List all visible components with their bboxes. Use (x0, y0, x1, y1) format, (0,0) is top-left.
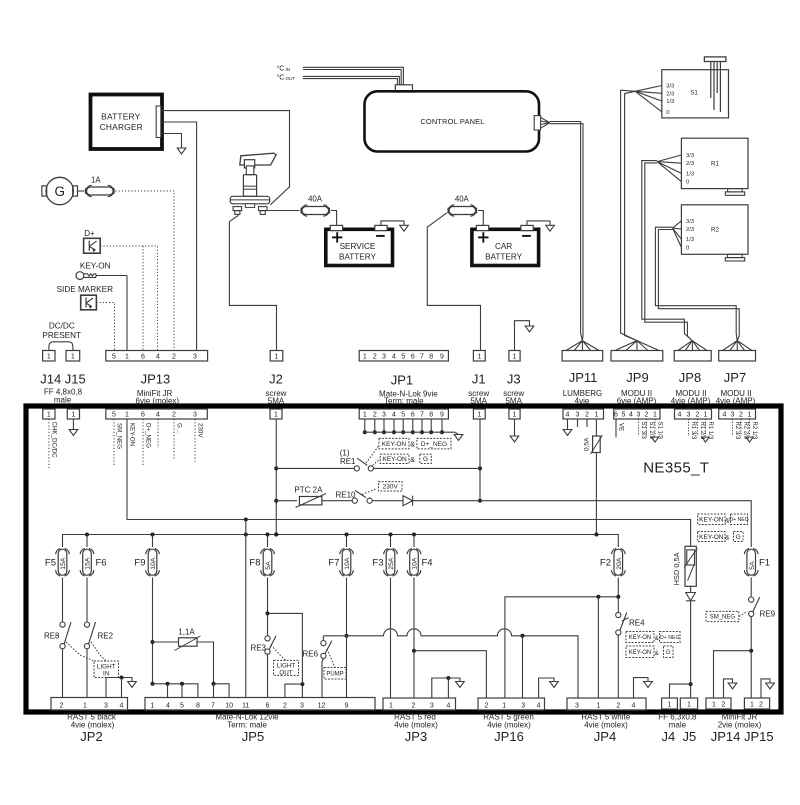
svg-text:1: 1 (712, 701, 716, 708)
svg-text:1: 1 (47, 411, 51, 418)
svg-text:1: 1 (275, 353, 279, 360)
svg-text:1/3: 1/3 (686, 237, 694, 243)
svg-text:2/3: 2/3 (686, 227, 694, 233)
svg-text:6: 6 (141, 353, 145, 360)
svg-text:4: 4 (566, 411, 570, 418)
svg-text:4: 4 (156, 353, 160, 360)
svg-text:BATTERY: BATTERY (101, 112, 140, 122)
svg-text:JP3: JP3 (405, 729, 427, 744)
svg-text:8: 8 (196, 702, 200, 709)
svg-text:1: 1 (477, 411, 481, 418)
svg-text:RE4: RE4 (629, 619, 645, 628)
svg-text:J1: J1 (472, 372, 486, 387)
svg-text:5: 5 (112, 411, 116, 418)
svg-text:5A: 5A (265, 561, 272, 570)
svg-text:3: 3 (575, 702, 579, 709)
svg-text:F6: F6 (96, 558, 107, 569)
svg-text:1: 1 (151, 702, 155, 709)
svg-text:VE: VE (618, 423, 625, 431)
svg-text:BATTERY: BATTERY (339, 253, 377, 262)
svg-text:IN: IN (103, 670, 110, 677)
svg-text:5: 5 (622, 411, 626, 418)
svg-text:2/3: 2/3 (666, 91, 674, 97)
svg-text:F3: F3 (372, 558, 383, 569)
svg-text:2: 2 (616, 702, 620, 709)
svg-text:10A: 10A (412, 557, 419, 570)
svg-text:OUT: OUT (286, 76, 296, 81)
svg-text:5A: 5A (749, 561, 756, 570)
svg-text:J3: J3 (507, 372, 521, 387)
svg-text:3: 3 (300, 702, 304, 709)
svg-text:7: 7 (420, 353, 424, 360)
svg-text:SM_NEG: SM_NEG (710, 615, 736, 621)
svg-text:7: 7 (211, 702, 215, 709)
svg-text:6: 6 (411, 353, 415, 360)
svg-text:R1 3/3: R1 3/3 (690, 422, 696, 440)
svg-text:JP2: JP2 (80, 729, 102, 744)
svg-text:2: 2 (585, 411, 589, 418)
svg-text:3: 3 (637, 411, 641, 418)
svg-text:3: 3 (731, 411, 735, 418)
svg-text:0: 0 (686, 245, 689, 251)
svg-text:G: G (423, 456, 428, 463)
svg-text:F4: F4 (422, 558, 433, 569)
svg-text:JP5: JP5 (242, 729, 264, 744)
svg-text:1: 1 (83, 702, 87, 709)
svg-text:1: 1 (125, 411, 129, 418)
svg-text:0,5A: 0,5A (584, 437, 591, 451)
svg-text:1: 1 (71, 353, 75, 360)
svg-text:KEY-ON: KEY-ON (699, 517, 724, 524)
svg-text:4: 4 (166, 702, 170, 709)
svg-text:8: 8 (429, 353, 433, 360)
svg-text:RE8: RE8 (44, 632, 60, 641)
svg-text:230V: 230V (197, 423, 204, 438)
svg-text:F2: F2 (600, 558, 611, 569)
svg-text:1: 1 (668, 701, 672, 708)
svg-text:1: 1 (750, 701, 754, 708)
svg-text:°C: °C (276, 73, 284, 82)
svg-text:°C: °C (276, 63, 284, 72)
svg-text:2: 2 (373, 411, 377, 418)
svg-text:LIGHT: LIGHT (277, 663, 296, 670)
svg-text:4: 4 (629, 411, 633, 418)
svg-text:2: 2 (373, 353, 377, 360)
svg-text:D+_NEG: D+_NEG (145, 423, 152, 448)
svg-text:4: 4 (678, 411, 682, 418)
svg-text:JP16: JP16 (494, 729, 524, 744)
svg-text:1: 1 (502, 702, 506, 709)
svg-text:HSD 0,5A: HSD 0,5A (672, 552, 681, 585)
svg-text:4: 4 (392, 353, 396, 360)
svg-text:2/3: 2/3 (686, 161, 694, 167)
svg-text:KEY-ON: KEY-ON (80, 262, 111, 271)
svg-text:1: 1 (596, 702, 600, 709)
svg-text:3: 3 (104, 702, 108, 709)
svg-text:5: 5 (401, 353, 405, 360)
svg-text:JP1: JP1 (391, 373, 413, 388)
svg-text:1: 1 (513, 411, 517, 418)
svg-text:3: 3 (430, 702, 434, 709)
svg-text:JP9: JP9 (626, 370, 648, 385)
svg-text:4: 4 (446, 702, 450, 709)
svg-text:KEY-ON: KEY-ON (699, 534, 724, 541)
svg-text:KEY-ON: KEY-ON (382, 441, 407, 448)
svg-text:0: 0 (686, 180, 689, 186)
svg-text:1/3: 1/3 (686, 171, 694, 177)
svg-text:2: 2 (484, 702, 488, 709)
svg-text:3: 3 (521, 702, 525, 709)
svg-text:RE9: RE9 (760, 610, 776, 619)
svg-text:11: 11 (242, 702, 249, 709)
svg-text:G: G (736, 534, 741, 541)
svg-text:G...: G... (176, 423, 183, 433)
svg-text:2: 2 (739, 411, 743, 418)
svg-text:J2: J2 (269, 372, 283, 387)
svg-text:CHK_DC/DC: CHK_DC/DC (51, 422, 58, 459)
svg-text:12: 12 (318, 702, 326, 709)
svg-text:1: 1 (687, 701, 691, 708)
svg-text:2: 2 (172, 353, 176, 360)
svg-text:3: 3 (382, 411, 386, 418)
svg-text:1: 1 (363, 353, 367, 360)
svg-text:OUT: OUT (279, 670, 292, 677)
svg-text:2: 2 (696, 411, 700, 418)
svg-text:IN: IN (286, 67, 291, 72)
svg-text:RE6: RE6 (303, 650, 319, 659)
svg-text:3: 3 (193, 411, 197, 418)
svg-text:10A: 10A (150, 557, 157, 570)
svg-text:6: 6 (614, 411, 618, 418)
svg-text:25A: 25A (388, 557, 395, 570)
svg-text:CONTROL PANEL: CONTROL PANEL (420, 117, 484, 126)
svg-text:KEY-ON: KEY-ON (629, 650, 651, 656)
svg-text:0: 0 (666, 110, 669, 116)
svg-text:RE2: RE2 (98, 632, 114, 641)
svg-text:6: 6 (411, 411, 415, 418)
svg-text:F7: F7 (328, 558, 339, 569)
svg-text:3: 3 (576, 411, 580, 418)
svg-text:8: 8 (429, 411, 433, 418)
svg-text:CAR: CAR (495, 242, 512, 251)
svg-text:&: & (655, 651, 659, 657)
svg-text:RE3: RE3 (250, 644, 266, 653)
svg-text:F8: F8 (249, 558, 260, 569)
svg-text:DC/DC: DC/DC (49, 322, 75, 331)
svg-text:2: 2 (412, 702, 416, 709)
svg-text:JP8: JP8 (679, 370, 701, 385)
svg-text:1: 1 (125, 353, 129, 360)
svg-text:1A: 1A (91, 175, 101, 184)
svg-text:10: 10 (225, 702, 233, 709)
svg-text:1: 1 (653, 411, 657, 418)
svg-text:LIGHT: LIGHT (97, 663, 116, 670)
svg-text:&: & (410, 457, 415, 464)
svg-text:2: 2 (645, 411, 649, 418)
svg-text:SERVICE: SERVICE (340, 242, 376, 251)
svg-text:40A: 40A (455, 195, 470, 204)
svg-text:9: 9 (440, 353, 444, 360)
svg-text:S1: S1 (690, 90, 698, 97)
svg-text:1: 1 (47, 353, 51, 360)
svg-text:1: 1 (513, 353, 517, 360)
svg-text:PTC 2A: PTC 2A (294, 485, 323, 494)
svg-text:D+_NEG: D+_NEG (421, 441, 447, 448)
svg-text:1: 1 (389, 702, 393, 709)
svg-text:JP4: JP4 (594, 729, 616, 744)
svg-text:F1: F1 (759, 558, 770, 569)
svg-text:JP13: JP13 (141, 372, 171, 387)
svg-text:40A: 40A (308, 195, 323, 204)
svg-text:6: 6 (141, 411, 145, 418)
svg-text:D+ NEG: D+ NEG (660, 635, 679, 641)
svg-text:1,1A: 1,1A (178, 628, 195, 637)
svg-text:9: 9 (344, 702, 348, 709)
svg-text:S1 3/3: S1 3/3 (640, 422, 646, 440)
svg-text:4: 4 (537, 702, 541, 709)
svg-text:1: 1 (748, 411, 752, 418)
svg-text:2: 2 (759, 701, 763, 708)
svg-text:7: 7 (420, 411, 424, 418)
svg-text:RE10: RE10 (335, 490, 356, 499)
svg-text:D+ NEG: D+ NEG (729, 517, 748, 523)
svg-text:3/3: 3/3 (666, 84, 674, 90)
svg-text:1: 1 (363, 411, 367, 418)
svg-text:5: 5 (112, 353, 116, 360)
svg-text:5: 5 (180, 702, 184, 709)
svg-text:4: 4 (392, 411, 396, 418)
svg-text:&: & (410, 442, 415, 449)
svg-text:&: & (655, 636, 659, 642)
svg-text:20A: 20A (616, 557, 623, 570)
svg-text:3/3: 3/3 (686, 153, 694, 159)
svg-text:R2 3/3: R2 3/3 (734, 422, 740, 440)
svg-text:15A: 15A (60, 557, 67, 570)
svg-text:3/3: 3/3 (686, 219, 694, 225)
svg-text:BATTERY: BATTERY (485, 253, 523, 262)
svg-text:RE1: RE1 (340, 457, 356, 466)
svg-text:4: 4 (156, 411, 160, 418)
svg-text:3: 3 (193, 353, 197, 360)
svg-text:KEY-ON: KEY-ON (629, 635, 651, 641)
svg-text:1/3: 1/3 (666, 99, 674, 105)
svg-text:10A: 10A (344, 557, 351, 570)
svg-text:JP7: JP7 (724, 370, 746, 385)
svg-text:15A: 15A (85, 557, 92, 570)
svg-text:2: 2 (60, 702, 64, 709)
svg-text:F5: F5 (45, 558, 56, 569)
svg-text:F9: F9 (134, 558, 145, 569)
svg-text:2: 2 (722, 701, 726, 708)
svg-text:PUMP: PUMP (326, 671, 343, 677)
svg-text:6: 6 (266, 702, 270, 709)
svg-text:2: 2 (172, 411, 176, 418)
svg-text:J14 J15: J14 J15 (40, 372, 86, 387)
svg-text:1: 1 (594, 411, 598, 418)
svg-text:PRESENT: PRESENT (42, 331, 81, 340)
svg-text:R2: R2 (711, 227, 719, 234)
svg-text:R1: R1 (711, 161, 719, 168)
svg-text:230V: 230V (383, 484, 399, 491)
svg-text:4: 4 (120, 702, 124, 709)
svg-text:G: G (54, 184, 65, 199)
svg-text:KEY-ON: KEY-ON (382, 456, 407, 463)
svg-text:5: 5 (401, 411, 405, 418)
svg-text:D+: D+ (84, 229, 95, 238)
svg-text:JP14 JP15: JP14 JP15 (711, 729, 774, 744)
svg-text:J4 J5: J4 J5 (662, 729, 697, 744)
svg-text:1: 1 (704, 411, 708, 418)
svg-text:G: G (666, 650, 671, 656)
svg-text:SM_NEG: SM_NEG (116, 423, 123, 449)
svg-text:9: 9 (440, 411, 444, 418)
svg-text:1: 1 (477, 353, 481, 360)
svg-text:JP11: JP11 (569, 370, 598, 385)
svg-text:3: 3 (687, 411, 691, 418)
svg-text:SIDE MARKER: SIDE MARKER (57, 285, 114, 294)
svg-text:CHARGER: CHARGER (100, 122, 143, 132)
svg-text:NE355_T: NE355_T (643, 460, 709, 477)
svg-text:male: male (54, 396, 72, 405)
svg-text:1: 1 (274, 411, 278, 418)
svg-text:2: 2 (283, 702, 287, 709)
svg-text:4: 4 (632, 702, 636, 709)
svg-text:3: 3 (382, 353, 386, 360)
svg-text:&: & (725, 535, 730, 542)
svg-text:KEY-ON: KEY-ON (129, 423, 136, 446)
svg-text:1: 1 (71, 411, 75, 418)
svg-text:4: 4 (723, 411, 727, 418)
